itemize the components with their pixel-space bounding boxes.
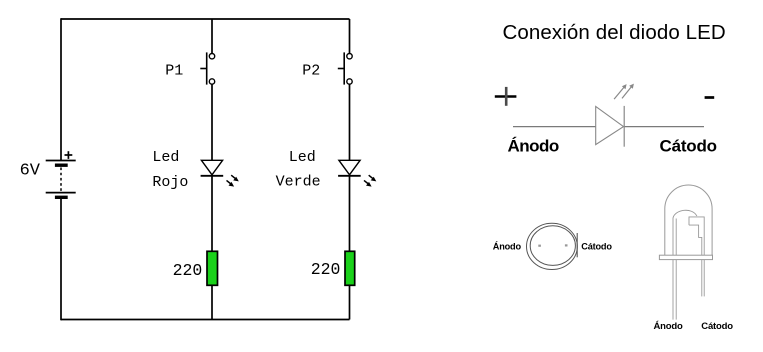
wire left rail upper	[60, 18, 62, 160]
svg-text:Led: Led	[289, 149, 316, 166]
pushbutton P2	[338, 52, 352, 84]
label Anodo (symbol)	[508, 137, 559, 156]
svg-text:Ánodo: Ánodo	[508, 137, 559, 156]
svg-text:Led: Led	[152, 149, 179, 166]
anode leg	[673, 260, 676, 320]
svg-text:Ánodo: Ánodo	[654, 321, 683, 332]
svg-text:Cátodo: Cátodo	[701, 321, 733, 332]
svg-text:P2: P2	[302, 62, 320, 79]
light emission arrows	[614, 84, 634, 100]
anode post and wire arch	[673, 210, 697, 255]
LED package dome	[665, 185, 712, 255]
label Led Rojo	[152, 149, 188, 191]
resistor R1 220	[207, 251, 218, 285]
wire bottom rail	[61, 319, 350, 321]
svg-text:220: 220	[173, 261, 203, 280]
label Catodo (package)	[701, 321, 733, 332]
svg-text:Ánodo: Ánodo	[493, 240, 522, 251]
svg-text:Verde: Verde	[276, 174, 321, 191]
LED bottom view outer ring	[527, 223, 578, 269]
wire branch1 top	[211, 19, 213, 54]
label Anodo (bottom view)	[493, 240, 522, 251]
wire anode lead	[513, 126, 596, 128]
wire branch1 below LED	[211, 176, 213, 252]
wire branch2 below LED	[349, 176, 351, 252]
diode symbol triangle	[596, 106, 624, 144]
LED bottom view inner circle	[530, 226, 575, 266]
battery B1 6V	[46, 151, 76, 197]
wire left rail lower	[60, 199, 62, 321]
LED package flange	[659, 255, 712, 259]
label P2	[302, 62, 320, 79]
lead marks	[538, 244, 567, 247]
label Catodo (bottom view)	[581, 242, 612, 252]
wire branch2 bottom	[349, 285, 351, 319]
svg-text:P1: P1	[165, 62, 183, 79]
label Catodo (symbol)	[660, 137, 717, 156]
label 220 (R2)	[311, 260, 341, 279]
wire branch1 bottom	[211, 285, 213, 319]
svg-text:6V: 6V	[20, 162, 41, 181]
svg-text:220: 220	[311, 260, 341, 279]
wire branch2 top	[349, 19, 351, 54]
wire cathode lead	[624, 126, 704, 128]
LED D1 red	[201, 160, 239, 186]
svg-text:Cátodo: Cátodo	[581, 242, 612, 252]
wire branch1 mid	[211, 84, 213, 160]
label Anodo (package)	[654, 321, 683, 332]
label 220 (R1)	[173, 261, 203, 280]
label P1	[165, 62, 183, 79]
cathode anvil with cup	[689, 217, 704, 255]
svg-text:Conexión del diodo LED: Conexión del diodo LED	[503, 21, 726, 44]
cathode leg	[702, 260, 704, 297]
title Conexion del diodo LED	[503, 21, 726, 44]
svg-text:Cátodo: Cátodo	[660, 137, 717, 156]
minus terminal symbol	[705, 96, 715, 99]
diode cathode bar	[623, 106, 625, 147]
resistor R2 220	[345, 251, 355, 285]
plus terminal symbol	[495, 87, 517, 106]
LED D2 green	[338, 160, 376, 186]
svg-text:Rojo: Rojo	[152, 174, 188, 191]
label Led Verde	[276, 149, 321, 191]
wire top rail	[61, 18, 350, 20]
pushbutton P1	[200, 52, 214, 84]
label 6V	[20, 162, 41, 181]
wire branch2 mid	[349, 84, 351, 160]
